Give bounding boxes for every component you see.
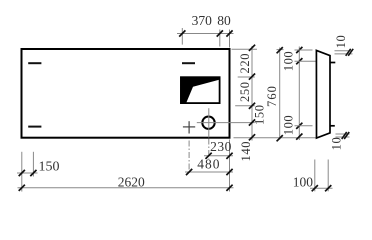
anchor dash bottom-left: [28, 126, 41, 128]
tick: [312, 185, 318, 191]
bolt cross marker horizontal: [183, 126, 195, 128]
svg-text:2620: 2620: [118, 174, 145, 189]
svg-text:220: 220: [238, 53, 252, 74]
svg-text:250: 250: [238, 81, 252, 102]
svg-text:140: 140: [239, 141, 253, 162]
double slash tick 1: [342, 132, 347, 139]
tick: [296, 58, 302, 64]
bolt cross marker vertical: [188, 121, 190, 133]
anchor dash top-right: [182, 62, 195, 64]
svg-text:80: 80: [217, 13, 231, 28]
circle horizontal centerline / extension: [197, 122, 255, 124]
tick: [206, 153, 212, 159]
dim line 150: [17, 172, 38, 174]
tick: [30, 170, 36, 176]
right ext line (rect right edge down): [229, 140, 231, 192]
tick: [226, 30, 232, 36]
bolt centerline dash-dot below: [188, 141, 190, 175]
svg-text:760: 760: [265, 85, 279, 107]
tick: [249, 45, 255, 51]
top dimension line 370/80: [177, 33, 234, 35]
dim line: [310, 187, 333, 189]
ext at logo top level: [238, 76, 255, 78]
svg-text:230: 230: [210, 139, 232, 154]
tick: [19, 170, 25, 176]
tick: [186, 169, 192, 175]
bottom 10 dim line lower: [336, 136, 350, 138]
top ext line stub at 760 line: [277, 49, 284, 51]
tick: [19, 185, 25, 191]
tick: [249, 103, 255, 109]
tick: [325, 185, 331, 191]
tab top: [330, 62, 335, 64]
tick: [296, 134, 302, 140]
tick: [226, 153, 232, 159]
svg-text:10: 10: [330, 137, 344, 151]
bottom dim line 2620: [18, 187, 234, 189]
chain3 ext line panel top: [295, 49, 313, 51]
tick: [249, 74, 255, 80]
bottom 10 dim line upper: [336, 133, 350, 135]
tick: [217, 30, 223, 36]
chain3 dimension line (100/100): [298, 47, 300, 141]
logo plate black fill: [180, 76, 220, 104]
circle centerline dash-dot below: [208, 139, 210, 159]
tick: [226, 185, 232, 191]
dim line 480: [185, 171, 233, 173]
main panel rectangle (front view): [22, 49, 230, 138]
svg-text:150: 150: [39, 160, 60, 175]
tick: [277, 47, 283, 53]
double slash tick 2: [344, 132, 349, 139]
ext line mid (370/80): [219, 30, 221, 47]
top 10 dim line upper: [335, 50, 353, 52]
bottom 100 dim ext line left: [314, 160, 316, 192]
double slash tick 1: [346, 49, 351, 56]
svg-text:370: 370: [192, 13, 213, 28]
ext line right: [32, 152, 34, 177]
ext at logo bottom level: [235, 105, 255, 107]
tick: [179, 30, 185, 36]
circle (hole): [202, 117, 214, 129]
chain1 dimension line (220/250/150/140): [251, 46, 253, 141]
top ext line rect corner to chain1: [232, 48, 258, 50]
side view panel: [316, 50, 330, 138]
ext line left (370): [181, 28, 183, 45]
svg-text:100: 100: [282, 51, 296, 72]
svg-text:100: 100: [293, 175, 314, 190]
svg-text:100: 100: [282, 115, 296, 136]
ext line right (80): [229, 30, 231, 48]
dim line 230: [204, 155, 233, 157]
svg-text:10: 10: [334, 35, 348, 49]
top 10 dim line lower: [335, 53, 353, 55]
tab bottom: [330, 125, 335, 127]
tick: [296, 47, 302, 53]
left 150 dim: ext line left (shared with 2620): [21, 152, 23, 192]
bottom long ext line: [234, 137, 317, 139]
tick: [296, 123, 302, 129]
760 dimension line: [279, 48, 281, 140]
tick: [249, 134, 255, 140]
svg-text:480: 480: [197, 156, 220, 171]
double slash tick 2: [348, 49, 353, 56]
tick: [226, 169, 232, 175]
tick: [277, 135, 283, 141]
chain3 ext line bottom tab: [295, 125, 313, 127]
anchor dash top-left: [28, 62, 41, 64]
chain3 ext line top tab: [295, 60, 316, 62]
tick: [249, 119, 255, 125]
logo plate rectangle: [181, 77, 220, 103]
bottom 100 dim ext line right: [327, 160, 329, 192]
circle vertical centerline: [208, 108, 210, 137]
